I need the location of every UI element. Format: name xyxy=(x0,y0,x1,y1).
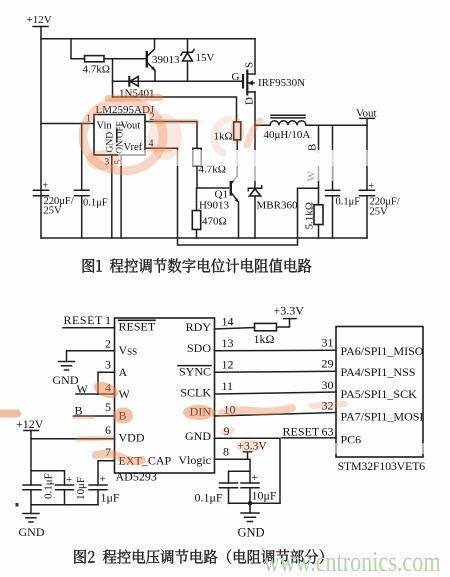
diode D2 MBR360 xyxy=(248,186,298,238)
svg-text:29: 29 xyxy=(322,357,334,371)
orange smudge near 1k xyxy=(214,119,229,153)
wire: caps bottom rail xyxy=(31,504,98,506)
capacitor C9 10uF xyxy=(241,472,277,503)
svg-text:+12V: +12V xyxy=(27,14,52,26)
svg-text:RESET: RESET xyxy=(283,425,320,439)
svg-text:PA5/SPI1_SCK: PA5/SPI1_SCK xyxy=(341,387,418,401)
svg-text:G: G xyxy=(232,71,240,83)
wire: bottom rail fig1 xyxy=(41,237,367,239)
svg-text:15V: 15V xyxy=(196,52,215,64)
svg-text:6: 6 xyxy=(105,423,111,437)
transistor Q1 H9013 xyxy=(199,140,239,238)
node W segment xyxy=(306,166,319,205)
svg-text:1: 1 xyxy=(105,313,111,327)
pin numbers right xyxy=(222,315,236,459)
svg-text:14: 14 xyxy=(222,315,234,329)
wire: R2 to Q1 base xyxy=(197,166,229,188)
wire: branch to C6 xyxy=(31,471,65,485)
svg-text:2: 2 xyxy=(105,337,111,351)
orange smudge pin4 wire xyxy=(146,149,170,150)
scan speck xyxy=(16,503,19,507)
Vout terminal xyxy=(356,108,377,126)
wire: pin7 EXT_CAP to C7 xyxy=(98,461,115,485)
svg-text:30: 30 xyxy=(322,378,334,392)
wire: Vref feedback path pin4 to node W xyxy=(145,148,319,245)
wire: left main vertical rail xyxy=(40,27,42,239)
wire: pin6 VDD from +12V xyxy=(31,438,115,440)
wire: pin11 SCLK to PA5 xyxy=(215,392,337,394)
orange smudge VDD wire xyxy=(78,438,112,439)
svg-text:31: 31 xyxy=(322,336,334,350)
pin SYNC label xyxy=(178,365,211,379)
scan wash band fig2 xyxy=(284,443,450,454)
svg-text:5: 5 xyxy=(105,400,111,414)
svg-text:+3.3V: +3.3V xyxy=(274,304,305,318)
wire: pin4 W with label xyxy=(76,382,115,396)
wire: pin2 Vss to ground xyxy=(67,351,115,362)
svg-text:D: D xyxy=(244,97,256,105)
capacitor C7 1uF xyxy=(89,474,120,505)
orange smudge line10 right xyxy=(312,404,345,406)
svg-text:0.1μF: 0.1μF xyxy=(336,197,361,208)
wire: branch to C8 xyxy=(229,471,251,483)
svg-text:11: 11 xyxy=(222,379,234,393)
svg-text:+: + xyxy=(43,181,49,192)
svg-text:470Ω: 470Ω xyxy=(202,216,227,228)
svg-text:0.1μF: 0.1μF xyxy=(83,198,108,209)
IC U3 AD5293 xyxy=(115,318,215,484)
svg-text:0.1μF: 0.1μF xyxy=(195,491,223,505)
svg-text:1μF: 1μF xyxy=(101,491,120,505)
svg-text:RESET: RESET xyxy=(119,320,156,334)
scan wash band fig1 xyxy=(118,150,388,166)
orange streak near inductor xyxy=(247,121,260,145)
svg-text:H9013: H9013 xyxy=(199,200,229,212)
junction dot xyxy=(248,501,253,506)
svg-text:W: W xyxy=(77,382,89,396)
svg-text:25V: 25V xyxy=(44,205,63,216)
capacitor C6 10uF xyxy=(56,474,88,505)
orange highlight pin10 xyxy=(222,408,292,413)
wire: pin9 GND to ground xyxy=(215,438,281,503)
wire: top rail xyxy=(41,38,255,40)
ground symbol (fig2 right) xyxy=(238,513,265,540)
svg-text:A: A xyxy=(119,365,128,379)
pin numbers left xyxy=(105,313,111,459)
svg-text:+: + xyxy=(66,474,72,486)
net label RESET xyxy=(64,313,104,327)
+3.3V terminal (RDY pullup) xyxy=(274,304,305,319)
wire: pin10 DIN to PA7 xyxy=(215,413,337,417)
svg-text:GND: GND xyxy=(238,526,265,540)
wire: node B1 line to 1k resistor xyxy=(113,97,237,122)
svg-text:Vlogic: Vlogic xyxy=(178,453,211,467)
wire: branch to R1 xyxy=(71,39,85,59)
resistor R1 4.7k xyxy=(83,56,110,76)
capacitor C1 220uF/25V (fig1 left) xyxy=(34,181,74,217)
wire: RESET to pin1 xyxy=(63,327,115,329)
caption fig2 xyxy=(74,549,323,564)
wire: A to W join xyxy=(97,372,99,394)
wire: pin5 B with label xyxy=(74,404,115,418)
capacitor C4 220uF/25V (fig1 right) xyxy=(360,125,400,238)
svg-text:RDY: RDY xyxy=(186,320,212,334)
wire: to ground symbol xyxy=(249,503,251,513)
orange smudge B wire xyxy=(74,415,93,419)
svg-text:B: B xyxy=(307,144,319,151)
svg-text:+: + xyxy=(100,474,106,486)
svg-text:5.1kΩ: 5.1kΩ xyxy=(304,202,316,229)
svg-text:25V: 25V xyxy=(370,207,389,218)
svg-text:13: 13 xyxy=(222,336,234,350)
svg-text:8: 8 xyxy=(223,445,229,459)
svg-text:SDO: SDO xyxy=(187,341,211,355)
svg-text:W: W xyxy=(119,387,131,401)
pin RESET label xyxy=(119,320,156,334)
orange highlight B label xyxy=(113,408,133,424)
svg-text:4.7kΩ: 4.7kΩ xyxy=(83,64,110,76)
svg-text:GND: GND xyxy=(19,525,45,539)
caption fig1 xyxy=(83,258,312,272)
svg-text:AD5293: AD5293 xyxy=(116,470,157,484)
svg-text:S: S xyxy=(244,62,256,68)
svg-text:3: 3 xyxy=(105,358,111,372)
wire: pin3 down to ground rail xyxy=(111,155,113,238)
wire: pin2 Vout to R2 xyxy=(145,122,197,149)
svg-text:+: + xyxy=(252,472,258,484)
wire: R1 to Q2 base xyxy=(104,58,146,60)
wire: base node down to R3 xyxy=(196,188,198,211)
ground symbol (fig2 left) xyxy=(19,514,45,540)
pin PA7/SPI1_MOSI xyxy=(322,399,424,424)
diode D1 1N5401 xyxy=(113,76,244,100)
orange smudge +3.3V lower xyxy=(236,440,262,453)
regulator U1 LM2595ADJ xyxy=(86,104,155,168)
wire: pin8 Vlogic xyxy=(215,459,251,483)
wire: pin13 SDO to PA6 xyxy=(215,349,337,352)
svg-text:12: 12 xyxy=(222,358,234,372)
wire: down to ground xyxy=(30,490,32,514)
pin PA5/SPI1_SCK xyxy=(322,378,418,401)
svg-text:0.1μF: 0.1μF xyxy=(43,473,55,499)
orange highlight ring around U1 xyxy=(83,101,163,171)
svg-text:PA4/SPI1_NSS: PA4/SPI1_NSS xyxy=(341,365,416,379)
resistor R2 4.7k xyxy=(193,148,226,175)
svg-text:Vin: Vin xyxy=(97,121,113,132)
svg-text:+12V: +12V xyxy=(16,417,44,431)
net label RESET 63 wire to PC6 xyxy=(282,425,336,439)
wire: right caps bottom rail xyxy=(229,502,281,504)
wire: pin3 A xyxy=(98,371,115,373)
orange smudge B wire left edge xyxy=(0,410,17,418)
svg-text:40μH/10A: 40μH/10A xyxy=(264,129,311,141)
capacitor C5 0.1uF xyxy=(23,473,55,499)
capacitor C3 0.1uF (fig1 right) xyxy=(326,125,361,238)
resistor R4 1k xyxy=(214,122,241,143)
wire: drain vertical down xyxy=(254,92,256,188)
wire: Vin line to pin1 xyxy=(41,123,94,125)
orange smudge pin9 xyxy=(223,430,232,432)
transistor Q2 39013 xyxy=(147,39,180,82)
svg-text:RESET: RESET xyxy=(64,313,104,327)
svg-text:STM32F103VET6: STM32F103VET6 xyxy=(338,459,426,473)
wire: junction vertical to node B1 xyxy=(112,59,114,97)
svg-text:www.cntronics.com: www.cntronics.com xyxy=(264,545,441,577)
svg-text:VDD: VDD xyxy=(119,431,145,445)
MCU U4 STM32F103VET6 xyxy=(336,327,425,474)
svg-text:10μF: 10μF xyxy=(252,489,277,503)
svg-text:+: + xyxy=(369,181,375,192)
pin PA4/SPI1_NSS xyxy=(322,357,416,380)
MOSFET U2 IRF9530N xyxy=(232,39,306,105)
svg-text:63: 63 xyxy=(322,425,334,439)
svg-text:IRF9530N: IRF9530N xyxy=(258,77,305,89)
svg-text:SCLK: SCLK xyxy=(180,386,211,400)
resistor R6 1k pullup xyxy=(254,323,277,346)
+3.3V terminal (Vlogic) xyxy=(238,441,268,460)
svg-text:PA7/SPI1_MOSI: PA7/SPI1_MOSI xyxy=(341,410,424,424)
svg-text:10μF: 10μF xyxy=(75,477,87,500)
capacitor C2 0.1uF (fig1 left) xyxy=(75,124,108,239)
orange smudge node B1 xyxy=(108,98,160,99)
orange highlight pin4 xyxy=(91,379,120,402)
pin PA6/SPI1_MISO xyxy=(322,336,424,359)
svg-text:GND: GND xyxy=(53,373,79,387)
+12V supply terminal xyxy=(27,14,52,27)
svg-text:MBR360: MBR360 xyxy=(257,200,298,212)
node B tap on output line xyxy=(307,125,319,153)
wire: pin12 SYNC to PA4 xyxy=(215,371,337,372)
wire: pin5 down to ground rail xyxy=(120,155,122,238)
svg-text:PA6/SPI1_MISO: PA6/SPI1_MISO xyxy=(341,344,424,358)
svg-text:SYNC: SYNC xyxy=(179,365,211,379)
wire: R6 to +3.3V xyxy=(277,319,290,327)
inductor L1 40uH/10A xyxy=(255,115,367,141)
svg-text:ON/OFF: ON/OFF xyxy=(115,121,125,153)
+12V terminal fig2 xyxy=(16,417,44,431)
svg-text:GND: GND xyxy=(185,429,211,443)
ground symbol (Vss) xyxy=(53,362,79,388)
svg-text:1kΩ: 1kΩ xyxy=(254,332,275,346)
svg-text:39013: 39013 xyxy=(152,54,180,66)
orange highlight DIN xyxy=(183,405,215,420)
capacitor C8 0.1uF xyxy=(195,483,238,505)
resistor R5 5.1k xyxy=(304,202,324,238)
resistor R3 470 xyxy=(192,211,226,239)
wire: +12V vertical xyxy=(30,431,32,486)
orange highlight pin7 xyxy=(96,454,142,461)
zener diode 15V xyxy=(181,39,215,82)
wire: pin14 RDY to R6 xyxy=(215,328,255,330)
